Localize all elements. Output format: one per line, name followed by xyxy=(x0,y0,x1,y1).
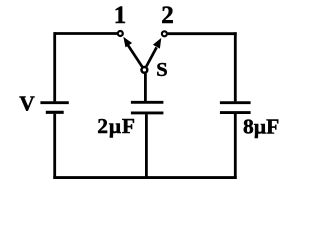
capacitor C2 (8uF) plates xyxy=(220,103,251,113)
switch pivot node S xyxy=(142,67,148,73)
capacitor C1 (2uF) plates xyxy=(131,102,164,113)
wire left vertical lower: battery down to bottom corner xyxy=(53,114,56,179)
wire right vertical lower: capacitor C2 down to bottom corner xyxy=(234,114,237,179)
wire switch pivot to capacitor C1 xyxy=(144,73,147,101)
battery V plates xyxy=(40,103,68,113)
svg-text:S: S xyxy=(156,59,167,81)
svg-text:2µF: 2µF xyxy=(97,114,136,138)
wire top-right: switch terminal 2 to right corner xyxy=(168,32,237,35)
wire capacitor C1 to bottom wire xyxy=(145,114,148,178)
switch arm arrow to terminal 2 xyxy=(146,38,161,67)
svg-text:V: V xyxy=(19,92,35,116)
svg-text:2: 2 xyxy=(161,2,174,29)
svg-text:8µF: 8µF xyxy=(243,115,279,139)
svg-text:1: 1 xyxy=(114,2,127,29)
wire left vertical upper: top corner down to battery xyxy=(53,32,56,101)
switch arm arrow to terminal 1 xyxy=(123,37,142,67)
wire bottom: bottom-left corner to bottom-right corner xyxy=(53,176,236,179)
switch terminal 1 node xyxy=(118,31,123,36)
wire right vertical upper: top corner down to capacitor C2 xyxy=(234,32,237,101)
wire top-left: left corner to switch terminal 1 xyxy=(55,32,117,35)
switch terminal 2 node xyxy=(162,31,167,36)
